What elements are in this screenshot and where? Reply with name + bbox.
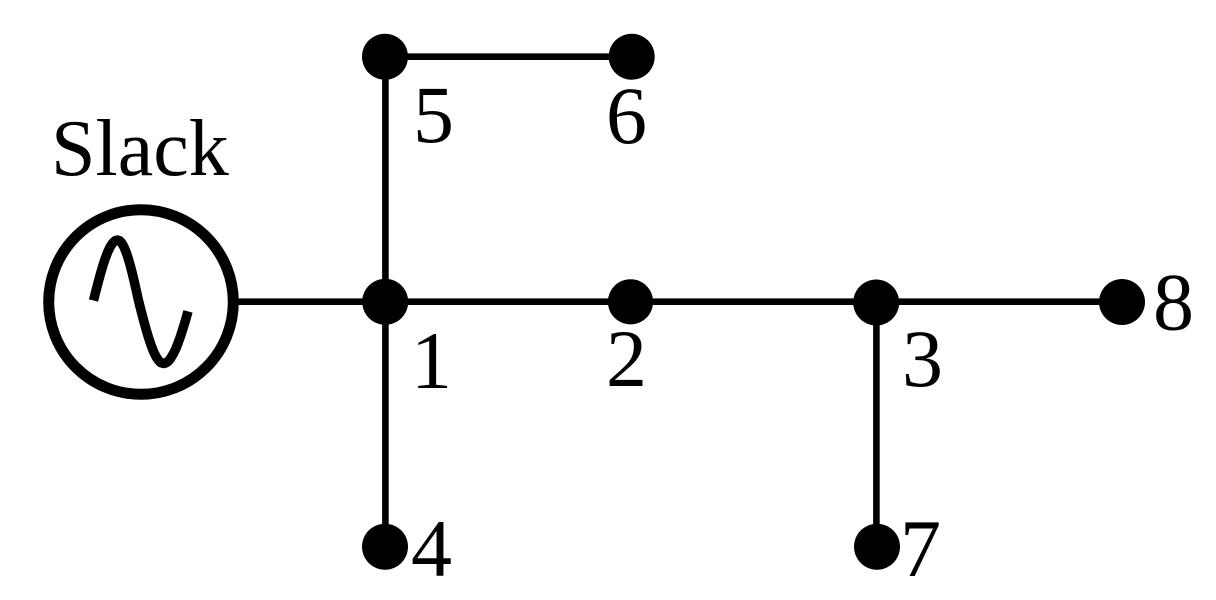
svg-text:1: 1 bbox=[411, 315, 452, 406]
bus 7 node bbox=[854, 524, 900, 570]
bus 6 node bbox=[609, 34, 655, 80]
svg-text:7: 7 bbox=[900, 503, 941, 594]
wire bus5-bus6 bbox=[385, 53, 632, 60]
wire source to bus 1 bbox=[236, 298, 385, 305]
svg-text:Slack: Slack bbox=[51, 105, 229, 193]
wire bus1-bus2-bus3-bus8 main feeder bbox=[385, 298, 1122, 305]
bus 3 node bbox=[853, 280, 899, 326]
bus 2 node bbox=[608, 279, 653, 324]
svg-text:3: 3 bbox=[902, 313, 943, 404]
svg-text:2: 2 bbox=[606, 313, 647, 404]
svg-text:6: 6 bbox=[606, 70, 647, 161]
bus 5 node bbox=[362, 34, 408, 80]
bus 8 node bbox=[1099, 279, 1145, 325]
bus 1 node bbox=[362, 279, 408, 325]
bus 4 node bbox=[362, 524, 408, 570]
svg-text:5: 5 bbox=[413, 69, 454, 160]
AC source sine wave bbox=[94, 240, 189, 364]
AC source G1 circle bbox=[49, 210, 234, 395]
svg-text:8: 8 bbox=[1153, 257, 1194, 348]
wire bus5-bus1-bus4 vertical bbox=[382, 57, 389, 547]
svg-text:4: 4 bbox=[411, 503, 452, 594]
wire bus3-bus7 bbox=[873, 302, 880, 547]
